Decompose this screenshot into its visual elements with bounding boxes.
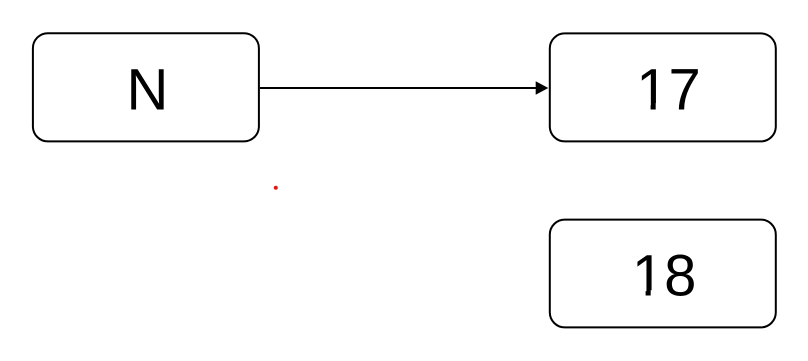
node 17 box [550,33,776,141]
red dot marker [274,186,278,190]
node 18 box [550,220,776,328]
svg-text:18: 18 [632,244,697,309]
node 18 label serif mask [635,290,646,297]
arrowhead [536,81,549,94]
node N box [33,33,259,141]
svg-text:N: N [126,57,168,122]
node 17 label serif mask [640,103,651,110]
wire arrow N to 17 [260,87,537,89]
svg-text:17: 17 [636,57,701,122]
